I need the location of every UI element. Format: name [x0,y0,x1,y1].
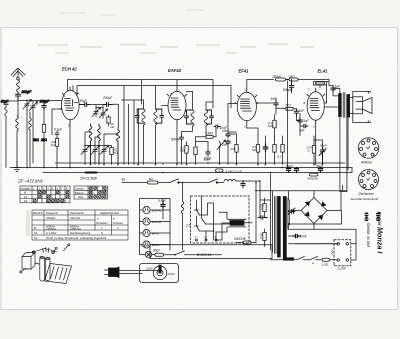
heater chain box [140,199,171,251]
svg-text:110V: 110V [146,267,154,271]
svg-text:0,1μF: 0,1μF [141,244,150,248]
svg-text:510 kHz: 510 kHz [70,216,81,220]
wire screen node [287,79,289,81]
svg-text:0,1: 0,1 [277,155,282,159]
svg-text:Frequenz: Frequenz [46,211,58,215]
dashed box battery [334,240,351,266]
output transformer secondary [347,95,350,118]
svg-text:10nF: 10nF [222,129,230,133]
capacitor 5nF tone [298,118,302,125]
svg-text:2,6: 2,6 [185,224,191,228]
resistor det load [194,142,197,165]
wire choke top [163,183,183,220]
small table 1 [20,186,70,203]
voltage selector box [140,264,179,283]
svg-text:B4: B4 [149,177,153,181]
svg-text:2,25V: 2,25V [337,267,347,271]
ground symbol [14,161,21,172]
IF T2 capacitor b [206,110,214,124]
IF transformer T1 coil b [154,104,157,165]
resistor B4 pill [148,181,159,184]
svg-text:0,1μF: 0,1μF [54,128,63,132]
vibrator dashed box [191,196,250,243]
IF transformer T2 coil a [191,105,194,131]
top rail B [77,86,231,109]
svg-text:Zwischenfr.: Zwischenfr. [69,211,85,215]
big table [32,210,128,240]
antenna coil L1 [17,80,20,92]
svg-text:Röhren: Röhren [361,161,372,165]
input coil L2 [16,116,19,168]
speaker terminal top [353,91,371,99]
small table 2 [74,186,108,199]
capacitor variable mark [288,208,295,215]
plug cable [119,271,160,274]
resistor 0.1MΩ EF41 [273,114,276,136]
capacitor 10nF tone2 [303,124,308,127]
tube EAF42 [168,91,186,120]
wire EF41 anode net [256,98,302,136]
choke coil vertical [181,199,184,251]
svg-text:Batterie: Batterie [75,191,84,195]
svg-text:EAF42: EAF42 [168,68,182,73]
wire det nodes [182,128,220,164]
svg-text:500Ω/W: 500Ω/W [234,237,247,241]
svg-text:3kΩ: 3kΩ [33,138,39,142]
svg-text:ECH42: ECH42 [152,209,162,213]
svg-text:140Ω/W: 140Ω/W [307,176,319,180]
wire bus drops bottom [219,164,221,166]
tube ECH42 [62,90,80,120]
wire ECH42 top pins [72,86,74,92]
svg-text:EL41: EL41 [318,69,329,74]
vibrator pins [196,239,198,241]
resistor osc low [110,146,113,165]
heater wiring [140,210,171,245]
svg-text:Netz: Netz [78,195,84,199]
wire EAF42 grid left [162,105,168,107]
wire psu mid [288,235,300,237]
wire AGC line [161,105,163,107]
wire right verticals [340,118,347,192]
resistor 170Ω EL41 cathode [312,140,315,165]
wire EF41 grid left [228,104,237,133]
antenna A1 [11,68,25,77]
capacitor 5nF EF41 anode [274,100,278,108]
wire OT to speaker [333,89,353,192]
resistor 100kΩ below ECH42 [55,138,58,168]
capacitor left of 50uF [294,168,298,173]
resistor R input [42,110,45,167]
svg-text:EF41: EF41 [152,232,160,236]
svg-text:MΩ: MΩ [180,149,185,153]
svg-text:7kΩ: 7kΩ [285,104,291,108]
wire extra drops [124,86,163,165]
ground bus rail top [55,162,345,164]
resistor 1.5Ω [322,258,330,261]
wire EL41 cathode [315,124,317,165]
wire bridge sides [288,191,341,230]
oscillator coil L6 [117,128,120,165]
wire EL41 top [320,82,340,96]
svg-text:Vorkreis: Vorkreis [113,221,124,225]
wire T1 to ECH42 [122,100,144,165]
svg-text:K1: K1 [24,195,28,199]
wire osc junctions [84,132,118,146]
rail psu lower [288,243,338,245]
potentiometer volume [217,140,226,150]
tube EL41 [307,92,324,120]
IF transformer T2 coil b [204,105,207,136]
resistor 0.5MΩ [256,140,259,165]
power transformer core bars [278,197,281,258]
svg-text:δa: δa [122,178,126,182]
svg-text:Nachbeugekreis: Nachbeugekreis [70,231,91,235]
heater EF41 [143,229,150,236]
connector pair b [376,213,380,217]
wire input top node [18,100,58,103]
svg-text:800pF: 800pF [283,88,293,92]
speaker magnet [353,97,363,114]
svg-text:Oszillator: Oszillator [96,221,109,225]
oscillator coil L4 [89,124,92,165]
wire EL41 cathode net [314,136,323,148]
resistor osc small [107,115,110,126]
selector dial [153,266,167,280]
bridge rectifier [301,198,327,224]
svg-text:Schalter: Schalter [21,186,31,190]
IF transformer T1 coil a [142,104,145,165]
svg-text:2: 2 [116,226,119,230]
vibrator reed [202,196,206,224]
capacitor 800pF screen [289,80,293,93]
svg-text:0,5μF: 0,5μF [158,199,167,203]
svg-text:MΩ: MΩ [268,124,273,128]
lamp symbol [145,251,151,257]
wire grid to input [52,101,62,136]
svg-text:ZF =472 kHz: ZF =472 kHz [17,178,43,183]
oscillator coil L5 [98,124,101,165]
wire ECH42 cathode to bus [69,123,71,168]
capacitor buffer small [258,216,267,220]
capacitor 10nF det [214,125,220,129]
wire T2 tops [186,91,213,105]
wire transformer top [252,181,271,243]
svg-text:EF41: EF41 [239,69,250,74]
power transformer end bar [285,258,294,260]
capacitor cathode EF41 [263,144,267,152]
svg-text:1,5Ω: 1,5Ω [322,263,329,267]
svg-text:Becker: Becker [377,212,382,226]
svg-text:50μF: 50μF [286,164,293,168]
output transformer primary [339,94,342,117]
switch psu a [270,257,321,260]
svg-text:50pF: 50pF [204,158,211,162]
capacitor 10nF EF41 left [226,132,230,138]
trimmer wires left [27,101,37,168]
svg-text:2kΩ: 2kΩ [40,138,47,142]
wire EL41 anode to OT [324,85,338,107]
IF T1 capacitor b [156,109,164,123]
trimmer capacitor input 2 [29,102,38,112]
faint scan smudges [26,9,314,236]
svg-text:100pF: 100pF [40,100,51,104]
socket Röhren circle [358,138,379,159]
input coil L3 [29,112,32,168]
svg-text:220V: 220V [167,272,176,276]
svg-text:200pF: 200pF [21,90,33,94]
top rail A [68,80,214,109]
svg-text:EAF42: EAF42 [152,220,162,224]
capacitor 50uF EL41 cathode [319,148,326,165]
svg-text:Lautspr.: Lautspr. [75,187,85,191]
switch rail lower [122,179,224,183]
trimmer capacitor osc 1 [92,108,101,117]
resistor anode EL41 box [314,80,330,86]
svg-text:Oszill. in einig. Kondensat. v: Oszill. in einig. Kondensat. vollständig… [46,236,107,240]
vibrator internal wires [200,203,228,240]
wire vibrator to transformer [206,221,253,241]
heater EL41 [143,241,150,248]
speaker terminal bottom [353,112,371,123]
power plug [105,270,109,275]
wire screen feed down [287,81,289,168]
IF T1 capacitor a [135,109,143,123]
wire osc top node [90,104,118,128]
rail below bridge [288,211,356,260]
chassis sketch bottom left [20,244,72,284]
trimmer capacitor osc 2 [99,109,108,118]
trimmer capacitor osc low 2 [91,146,100,165]
svg-text:Abgleichpunkte: Abgleichpunkte [99,211,120,215]
svg-text:1MΩ: 1MΩ [206,132,213,136]
resistor 1MΩ grid EF41 [235,140,238,165]
resistor pill on rail [216,169,224,172]
capacitor 1nF tone [294,109,298,116]
vibrator transformer winding [230,221,244,226]
socket Zerhacker circle [359,170,379,190]
svg-text:K1: K1 [34,231,38,235]
capacitor 200pF antenna [16,92,21,99]
trimmer capacitor osc low 3 [100,146,109,165]
resistor 150Ω buffer [263,198,266,218]
wire EF41 screen rail [247,80,274,89]
tube EF41 [237,92,256,120]
IF T2 capacitor a [185,110,193,124]
wire EAF42 cathode [176,123,178,164]
svg-text:472kHz: 472kHz [46,216,56,220]
heater ECH42 [143,206,150,213]
chassis long box [150,245,272,259]
vibrator contact left [195,200,200,231]
wire battery top [295,244,356,260]
svg-text:MΩ: MΩ [252,148,257,152]
capacitor 1uF coupling [331,86,335,93]
choke coil heater rail [224,179,260,181]
ground bus rail lower [43,172,352,174]
svg-text:Sechsfachstutzpunkt: Sechsfachstutzpunkt [351,197,379,201]
speaker cone [362,98,372,114]
switch contact dots [178,182,180,184]
svg-text:(AB Nr. 88848): (AB Nr. 88848) [367,223,371,247]
trimmer capacitor osc low 1 [81,146,90,165]
resistor 50Ω buffer [263,229,266,247]
svg-text:10nF: 10nF [300,235,308,239]
rail to bridge top [255,191,347,200]
junction dots rail main [16,162,323,183]
svg-text:30×11,5kW: 30×11,5kW [80,177,98,181]
wire EF41 cathode net [228,124,283,164]
svg-text:Bereich: Bereich [33,211,43,215]
capacitor 1nF EF41 left [226,140,230,145]
wire bus to psu [351,168,353,173]
svg-text:K2: K2 [24,199,28,203]
terminal thick dash on rail [86,172,97,174]
node antenna to tuner [6,99,18,116]
trimmer capacitor input 1 [23,100,32,110]
connector pair a [365,213,369,217]
switch mains [152,251,222,255]
svg-text:6,1 MHz: 6,1 MHz [46,231,57,235]
svg-text:ECH 42: ECH 42 [62,67,77,72]
svg-text:Monza I: Monza I [376,227,385,254]
resistor bias [273,140,276,165]
resistor screen divider [281,140,284,165]
capacitor 10nF psu [294,234,301,238]
svg-text:50μF: 50μF [320,144,327,148]
power transformer winding lines [271,173,290,254]
svg-text:M: M [24,191,26,195]
ground bus rail main [10,167,352,169]
wire lamp left [140,250,146,255]
rail 163 drops [84,164,86,166]
capacitor 50pF det [206,150,210,156]
svg-text:Zerhacker: Zerhacker [358,192,375,196]
svg-text:800pF: 800pF [171,138,181,142]
svg-text:1M: 1M [231,147,236,151]
svg-text:K2: K2 [34,236,38,240]
capacitor 800pF rail [241,181,245,188]
svg-text:50μF: 50μF [153,249,161,253]
svg-text:4,5kΩ 0,1μF: 4,5kΩ 0,1μF [226,170,243,174]
output transformer core [343,93,345,118]
svg-text:200pF: 200pF [102,96,113,100]
resistor 0.1MΩ AF [185,142,188,165]
resistor 140Ω/W [310,173,319,176]
heater EAF42 [143,218,150,225]
